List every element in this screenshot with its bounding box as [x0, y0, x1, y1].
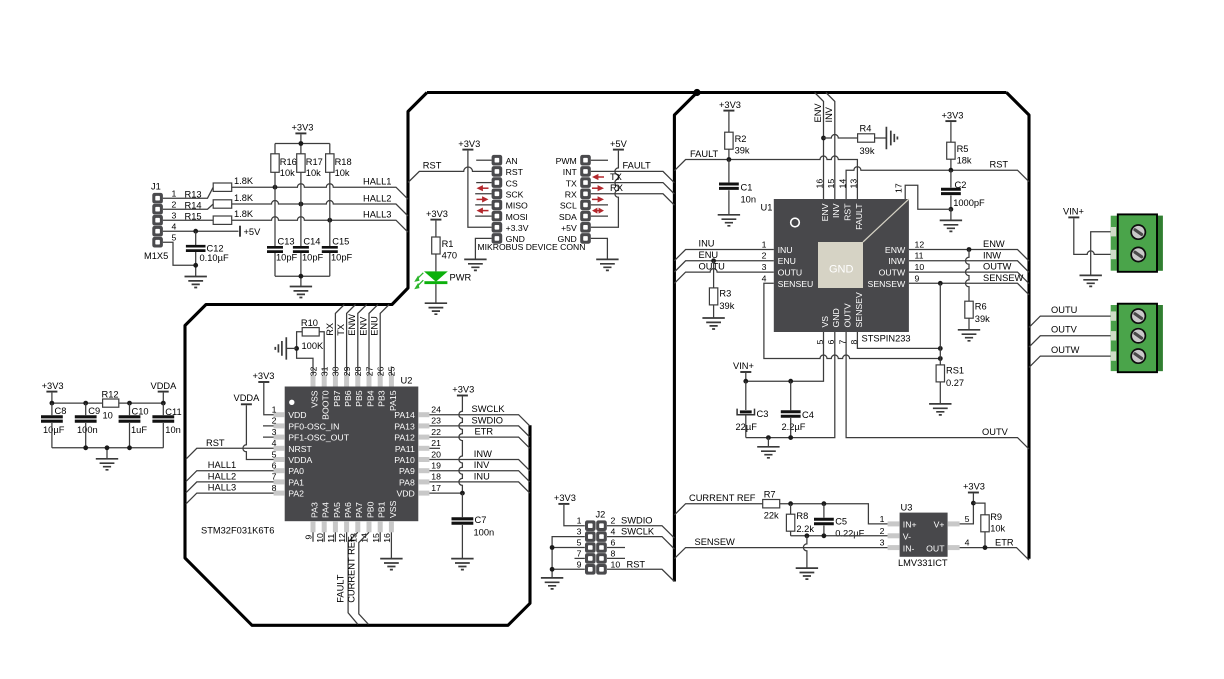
- wire ENW net: [909, 250, 1029, 262]
- svg-text:39k: 39k: [975, 314, 990, 324]
- J1 pin numbers 1-5: [172, 188, 177, 242]
- svg-text:GND: GND: [831, 308, 841, 327]
- svg-text:M1X5: M1X5: [144, 251, 168, 261]
- node ENW/R6: [967, 247, 972, 252]
- power +5V tick: [240, 226, 261, 238]
- svg-text:HALL2: HALL2: [363, 194, 391, 204]
- svg-text:TX: TX: [566, 178, 577, 188]
- svg-text:39k: 39k: [735, 146, 750, 156]
- svg-text:PA8: PA8: [399, 477, 415, 487]
- svg-text:ENW: ENW: [983, 239, 1005, 249]
- svg-text:22: 22: [431, 427, 441, 437]
- svg-text:ENV: ENV: [820, 203, 830, 221]
- wire LED cathode to ground: [435, 284, 437, 303]
- svg-text:VDD: VDD: [396, 489, 414, 499]
- svg-text:C14: C14: [303, 237, 320, 247]
- svg-text:INW: INW: [983, 250, 1001, 260]
- svg-text:2: 2: [880, 526, 885, 536]
- svg-text:R12: R12: [102, 389, 119, 399]
- wire V- rail to U3.2: [791, 535, 888, 537]
- node VIN rail dots: [743, 379, 748, 384]
- svg-text:VS: VS: [820, 316, 830, 328]
- wire R4 row: [824, 135, 858, 139]
- ground (C1): [718, 215, 740, 226]
- wire gnd stem with hop: [803, 536, 806, 568]
- svg-text:1.8K: 1.8K: [234, 176, 254, 186]
- svg-text:1.8K: 1.8K: [234, 193, 254, 203]
- svg-text:C1: C1: [741, 182, 753, 192]
- svg-text:14: 14: [837, 179, 847, 189]
- svg-text:ENW: ENW: [885, 245, 906, 255]
- svg-text:100K: 100K: [302, 341, 325, 351]
- arrow SDA bidir: [592, 208, 604, 214]
- ground (R6): [958, 330, 980, 341]
- svg-text:R4: R4: [860, 124, 872, 134]
- svg-text:VDDA: VDDA: [288, 455, 312, 465]
- svg-text:+3V3: +3V3: [942, 110, 964, 120]
- resistor R14 1.8K: [185, 193, 254, 211]
- U1 bottom pin numbers: [815, 340, 859, 345]
- resistor R2 39k: [725, 132, 750, 159]
- svg-text:17: 17: [894, 183, 904, 193]
- svg-text:PWM: PWM: [556, 156, 577, 166]
- arrow SCL out: [592, 196, 604, 202]
- wire OUTW to terminal: [1029, 356, 1111, 367]
- ground (RS1): [929, 404, 951, 415]
- svg-text:PB6: PB6: [343, 390, 353, 407]
- svg-text:C11: C11: [165, 407, 181, 417]
- svg-text:15: 15: [826, 179, 836, 189]
- wire RST (J2.10): [607, 569, 674, 581]
- svg-text:ETR: ETR: [475, 427, 494, 437]
- svg-text:2: 2: [611, 516, 616, 526]
- svg-text:VIN+: VIN+: [733, 361, 754, 371]
- wire INW (PA10): [429, 460, 529, 471]
- svg-text:INW: INW: [888, 256, 906, 266]
- ground (J2): [541, 578, 563, 589]
- svg-text:V-: V-: [903, 531, 911, 541]
- svg-text:R15: R15: [185, 212, 202, 222]
- svg-text:PB3: PB3: [377, 390, 387, 407]
- svg-text:22k: 22k: [764, 510, 779, 520]
- wire RST from border: [408, 167, 492, 183]
- svg-text:HALL1: HALL1: [363, 177, 391, 187]
- arrow MISO out: [477, 196, 489, 202]
- U1 right pin numbers: [915, 239, 925, 283]
- svg-text:HALL1: HALL1: [208, 460, 236, 470]
- svg-text:LMV331ICT: LMV331ICT: [898, 558, 948, 568]
- svg-text:10µF: 10µF: [43, 425, 65, 435]
- svg-text:100n: 100n: [77, 425, 98, 435]
- svg-text:1.8K: 1.8K: [234, 209, 254, 219]
- power +3V3 (J2): [554, 493, 585, 526]
- capacitor C4 2.2uF: [781, 381, 814, 437]
- svg-text:SWDIO: SWDIO: [621, 516, 653, 526]
- capacitor C3 22uF (polarized): [736, 381, 769, 437]
- U1 top pin numbers: [815, 179, 859, 189]
- capacitor C5 0.22uF: [814, 504, 865, 539]
- terminal block OUT (3-pos): [1111, 304, 1163, 373]
- U2 bottom pin numbers: [304, 533, 392, 543]
- svg-text:39k: 39k: [719, 301, 734, 311]
- wire SENSEU routed to RS1: [764, 283, 940, 358]
- svg-text:INV: INV: [474, 460, 490, 470]
- svg-text:+3V3: +3V3: [963, 482, 985, 492]
- node HALL3 junction: [327, 218, 332, 223]
- svg-text:INT: INT: [563, 167, 578, 177]
- svg-text:4: 4: [611, 527, 616, 537]
- ground (R3): [702, 318, 724, 329]
- power +3V3 (mikroBUS): [458, 139, 491, 228]
- svg-text:R18: R18: [335, 157, 352, 167]
- wire GND pin6 to cap rail: [746, 332, 835, 438]
- svg-text:+5V: +5V: [244, 227, 262, 237]
- wire CURRENT REF net: [674, 504, 762, 515]
- wire VSS16 to ground: [390, 532, 392, 558]
- wire OUTV net: [846, 332, 1029, 449]
- capacitor C13 10pF: [267, 187, 298, 276]
- wire OUTW net: [909, 272, 1029, 284]
- node cap rail dots: [766, 435, 771, 440]
- svg-text:V+: V+: [934, 520, 945, 530]
- wire RX to border: [591, 194, 675, 205]
- svg-text:RX: RX: [565, 190, 577, 200]
- svg-text:R1: R1: [442, 239, 454, 249]
- svg-text:ENU: ENU: [370, 316, 380, 336]
- svg-text:R9: R9: [990, 512, 1002, 522]
- svg-text:C9: C9: [88, 406, 100, 416]
- wire J2 gnd rail (pins 3,5,9): [552, 537, 585, 578]
- wire bottom rail: [52, 448, 163, 459]
- svg-text:13: 13: [849, 179, 859, 189]
- block border: mikroBUS+MCU region outline: [185, 93, 530, 626]
- ground (C7): [451, 559, 473, 570]
- svg-text:R7: R7: [764, 489, 776, 499]
- svg-text:3: 3: [577, 527, 582, 537]
- node ENU/R3: [711, 258, 716, 263]
- wire J1.3 to R15: [163, 219, 213, 221]
- svg-text:PWR: PWR: [450, 273, 472, 283]
- svg-text:0.10µF: 0.10µF: [200, 253, 229, 263]
- svg-text:10k: 10k: [280, 168, 295, 178]
- svg-text:ENU: ENU: [778, 256, 796, 266]
- svg-text:10k: 10k: [335, 168, 350, 178]
- node rail dot: [299, 274, 304, 279]
- svg-text:1: 1: [272, 405, 277, 415]
- wire HALL3 to PA2: [186, 493, 274, 504]
- svg-text:12: 12: [915, 239, 925, 249]
- svg-text:PB5: PB5: [354, 390, 364, 407]
- resistor RS1 0.27: [936, 283, 964, 404]
- ground (U2 VSS16): [380, 559, 402, 570]
- svg-text:3: 3: [272, 427, 277, 437]
- svg-text:TX: TX: [610, 172, 622, 182]
- wire ETR (PA12): [429, 437, 529, 448]
- stub CS: [476, 182, 491, 184]
- svg-text:9: 9: [577, 559, 582, 569]
- wire SWDIO (PA13): [429, 426, 529, 437]
- svg-text:U1: U1: [761, 203, 773, 213]
- resistor R16 10k: [271, 154, 297, 187]
- svg-text:2.2µF: 2.2µF: [782, 422, 806, 432]
- svg-text:OUTU: OUTU: [699, 261, 725, 271]
- svg-text:PB4: PB4: [365, 390, 375, 407]
- svg-text:RST: RST: [990, 160, 1009, 170]
- svg-text:VSS: VSS: [309, 390, 319, 408]
- svg-text:C3: C3: [757, 409, 769, 419]
- svg-text:STSPIN233: STSPIN233: [862, 334, 911, 344]
- svg-text:PA15: PA15: [388, 390, 398, 411]
- svg-text:+3V3: +3V3: [452, 385, 474, 395]
- capacitor C11 10n: [152, 403, 181, 448]
- svg-text:RS1: RS1: [946, 365, 964, 375]
- wire U1 pin17 to C2 gnd: [905, 185, 951, 220]
- svg-text:8: 8: [611, 548, 616, 558]
- power +3V3 (PWR LED): [426, 209, 448, 237]
- svg-text:18: 18: [431, 472, 441, 482]
- node ENV/R4: [821, 136, 826, 141]
- arrow RX out: [592, 185, 604, 191]
- ground (C3/C4): [757, 438, 779, 458]
- ground (C12): [185, 277, 207, 288]
- svg-text:PB1: PB1: [377, 501, 387, 518]
- wire INU (PA8): [429, 482, 529, 493]
- svg-text:SENSEW: SENSEW: [983, 273, 1024, 283]
- power +3V3 (pullups): [292, 123, 314, 144]
- node C12 top: [193, 229, 198, 234]
- wire terminal gnd pin: [1091, 232, 1111, 276]
- svg-text:15: 15: [371, 533, 381, 543]
- svg-text:MISO: MISO: [506, 201, 528, 211]
- svg-text:1uF: 1uF: [131, 425, 147, 435]
- node J2 rail dots: [550, 545, 555, 550]
- svg-text:PF0-OSC_IN: PF0-OSC_IN: [288, 421, 339, 431]
- power VIN+: [1063, 207, 1111, 255]
- capacitor C14 10pF: [293, 204, 324, 276]
- svg-text:IN-: IN-: [903, 543, 915, 553]
- svg-text:R10: R10: [301, 318, 318, 328]
- svg-text:INW: INW: [474, 449, 492, 459]
- resistor R12 10: [102, 389, 119, 420]
- svg-text:PA3: PA3: [309, 502, 319, 518]
- svg-text:4: 4: [965, 538, 970, 548]
- svg-text:PA4: PA4: [321, 502, 331, 518]
- svg-text:R6: R6: [975, 302, 987, 312]
- svg-text:1: 1: [577, 516, 582, 526]
- svg-text:PA2: PA2: [288, 489, 304, 499]
- svg-text:6: 6: [272, 461, 277, 471]
- node SENSEU/RS1: [938, 356, 943, 361]
- wire J1.2 to R14: [163, 204, 213, 209]
- svg-text:5: 5: [172, 232, 177, 242]
- svg-text:SENSEV: SENSEV: [854, 292, 864, 327]
- svg-text:INU: INU: [474, 471, 490, 481]
- U2 top pin numbers: [308, 366, 396, 376]
- wire VS pin5 to VIN rail: [746, 332, 824, 381]
- svg-text:10pF: 10pF: [276, 252, 298, 262]
- svg-text:14: 14: [360, 533, 370, 543]
- ground (mikroBUS left): [464, 259, 486, 270]
- svg-text:HALL3: HALL3: [208, 483, 236, 493]
- U2 top pin names: [309, 390, 397, 420]
- wire R10 right to BOOT0: [319, 332, 324, 376]
- node R10/gnd junction: [294, 346, 299, 351]
- stub SCL: [591, 204, 608, 206]
- wire ENU (PB3) to border: [380, 305, 389, 376]
- svg-text:19: 19: [431, 461, 441, 471]
- svg-text:+3V3: +3V3: [719, 100, 741, 110]
- wire HALL1 row: [232, 184, 408, 200]
- svg-text:1000pF: 1000pF: [953, 198, 985, 208]
- ground (R10, rotated left): [275, 337, 296, 359]
- resistor R6 39k (ENW pulldown): [965, 250, 990, 330]
- wire J1.5 to gnd rail: [163, 242, 196, 276]
- svg-text:PA5: PA5: [332, 502, 342, 518]
- wire cap bottom rail: [275, 276, 330, 286]
- ground (decoupling bank): [96, 459, 118, 470]
- svg-text:+3.3V: +3.3V: [506, 223, 529, 233]
- stubs U2 bottom NC pins: [313, 532, 380, 542]
- U2 bottom pin names: [309, 500, 397, 518]
- driver U1 STSPIN233 body: [761, 199, 911, 344]
- svg-text:+3V3: +3V3: [426, 209, 448, 219]
- wire HALL2 row: [232, 201, 408, 216]
- svg-text:OUT: OUT: [926, 543, 945, 553]
- svg-text:U3: U3: [901, 503, 913, 513]
- resistor R9 10k: [973, 503, 1005, 547]
- wire CURRENT REF (PB0) to bottom border: [359, 532, 369, 624]
- svg-text:10: 10: [915, 262, 925, 272]
- wire INU net: [674, 250, 773, 261]
- svg-text:ENV: ENV: [813, 103, 823, 123]
- svg-text:SENSEU: SENSEU: [778, 279, 814, 289]
- svg-text:RST: RST: [506, 167, 524, 177]
- block border: driver region right edge: [1007, 93, 1030, 559]
- capacitor C1 10n: [719, 160, 756, 215]
- power +3V3 (U2 VDD pin1): [253, 371, 275, 415]
- svg-text:OUTU: OUTU: [1051, 305, 1077, 315]
- svg-text:1: 1: [880, 514, 885, 524]
- svg-text:11: 11: [326, 534, 336, 543]
- wire INW net: [909, 261, 1029, 273]
- svg-text:PA0: PA0: [288, 466, 304, 476]
- svg-text:8: 8: [272, 483, 277, 493]
- svg-text:PF1-OSC_OUT: PF1-OSC_OUT: [288, 433, 350, 443]
- svg-text:RX: RX: [325, 323, 335, 336]
- wire TX to border: [591, 183, 675, 194]
- svg-text:MIKROBUS DEVICE CONN: MIKROBUS DEVICE CONN: [478, 242, 586, 252]
- wire pullup rail: [275, 144, 330, 154]
- U2 right pin names: [394, 410, 415, 498]
- stub PA11: [429, 447, 440, 449]
- U1 left pin numbers: [762, 239, 767, 283]
- svg-text:RST: RST: [843, 203, 853, 221]
- stub AN: [476, 159, 491, 161]
- svg-text:C4: C4: [802, 410, 814, 420]
- U3 pin numbers: [880, 514, 970, 548]
- svg-text:RST: RST: [627, 559, 646, 569]
- wire ENV (PB4) to border: [369, 305, 378, 376]
- svg-text:HALL2: HALL2: [208, 471, 236, 481]
- svg-text:10: 10: [103, 410, 113, 420]
- U2 left pin numbers: [272, 405, 277, 493]
- svg-text:5: 5: [272, 449, 277, 459]
- svg-text:+3V3: +3V3: [554, 493, 576, 503]
- svg-text:PA6: PA6: [343, 502, 353, 518]
- MCU U2 STM32F031K6T6 body: [201, 376, 418, 536]
- node R7/C5: [822, 501, 827, 506]
- resistor R8 2.2k: [786, 504, 814, 536]
- svg-text:TX: TX: [336, 324, 346, 336]
- wire OUT/ETR net: [960, 548, 1029, 561]
- svg-text:VIN+: VIN+: [1063, 207, 1084, 217]
- stub SDA: [591, 215, 608, 217]
- svg-text:NRST: NRST: [288, 444, 312, 454]
- svg-text:5: 5: [965, 514, 970, 524]
- node gnd junction: [193, 263, 198, 268]
- svg-text:100n: 100n: [474, 528, 495, 538]
- svg-text:C15: C15: [332, 237, 349, 247]
- svg-text:C13: C13: [278, 237, 295, 247]
- svg-text:R5: R5: [957, 144, 969, 154]
- wire J1.1 to R13: [163, 187, 213, 198]
- wire SWCLK (PA14): [429, 415, 529, 426]
- svg-text:C10: C10: [132, 407, 149, 417]
- stub J2 pin7: [575, 557, 585, 559]
- svg-text:4: 4: [172, 221, 177, 231]
- svg-text:CURRENT REF: CURRENT REF: [347, 536, 357, 603]
- svg-text:SCL: SCL: [560, 201, 577, 211]
- power VIN+ (C3 rail): [733, 361, 754, 381]
- svg-text:VDDA: VDDA: [234, 393, 261, 403]
- node +3V3/R9: [971, 501, 976, 506]
- border junction dot: [693, 89, 700, 96]
- block border: top edge: [427, 91, 1007, 94]
- ground (C2/pin17): [940, 220, 962, 231]
- svg-text:OUTV: OUTV: [982, 427, 1009, 437]
- svg-text:OUTV: OUTV: [843, 303, 853, 327]
- connector mikroBUS left header: [492, 155, 503, 244]
- svg-text:SWCLK: SWCLK: [472, 404, 506, 414]
- svg-text:SDA: SDA: [559, 212, 577, 222]
- wire FAULT net row: [674, 156, 857, 199]
- power +5V (mikroBUS): [591, 139, 628, 228]
- svg-text:2: 2: [272, 416, 277, 426]
- svg-text:ETR: ETR: [995, 538, 1014, 548]
- svg-text:SENSEW: SENSEW: [868, 279, 906, 289]
- capacitor C2 1000pF: [941, 170, 985, 209]
- svg-text:GND: GND: [829, 263, 854, 275]
- wire top rail left: [52, 402, 103, 404]
- svg-text:2: 2: [172, 199, 177, 209]
- svg-text:BOOT0: BOOT0: [321, 390, 331, 420]
- connector J1 M1X5: [144, 182, 168, 262]
- node rail dot: [299, 141, 304, 146]
- node SENSEW/RS1: [938, 281, 943, 286]
- wire FAULT (INT) to border: [591, 171, 675, 182]
- LED PWR (green): [414, 271, 448, 289]
- svg-text:FAULT: FAULT: [854, 203, 864, 230]
- wire OUTU net: [674, 269, 773, 284]
- stub J2 pin6: [607, 547, 625, 549]
- svg-text:17: 17: [431, 483, 441, 493]
- node bottom dots: [83, 445, 88, 450]
- svg-text:INU: INU: [778, 245, 793, 255]
- ground (PWR LED): [425, 303, 447, 314]
- wire FAULT (PA7) to bottom border: [348, 532, 358, 624]
- resistor R17 10k: [297, 154, 323, 204]
- node VDD17/C7: [460, 491, 465, 496]
